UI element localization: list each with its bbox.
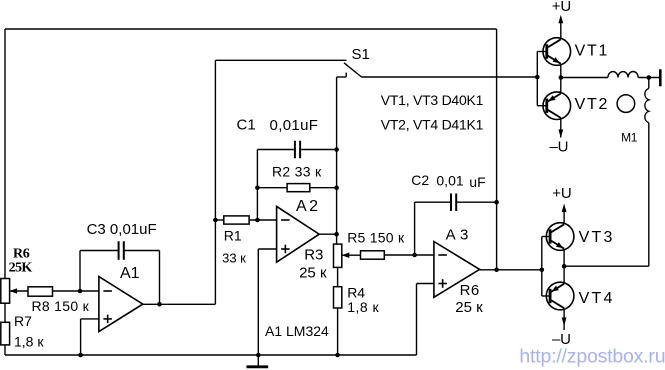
svg-text:–U: –U bbox=[550, 138, 569, 155]
svg-text:+U: +U bbox=[552, 0, 571, 15]
svg-text:VT1, VT3 D40K1: VT1, VT3 D40K1 bbox=[381, 92, 484, 108]
svg-text:R3: R3 bbox=[304, 247, 323, 264]
svg-text:S1: S1 bbox=[352, 46, 370, 63]
svg-text:uF: uF bbox=[469, 174, 485, 190]
svg-text:VT4: VT4 bbox=[579, 290, 615, 307]
svg-text:0,01uF: 0,01uF bbox=[270, 117, 319, 134]
svg-text:C1: C1 bbox=[237, 117, 256, 134]
svg-text:C3 0,01uF: C3 0,01uF bbox=[87, 221, 157, 238]
svg-text:VT3: VT3 bbox=[579, 229, 615, 246]
svg-text:R6: R6 bbox=[13, 247, 30, 262]
svg-text:VT1: VT1 bbox=[575, 42, 609, 59]
svg-text:0,01: 0,01 bbox=[436, 172, 463, 188]
svg-text:R7: R7 bbox=[14, 313, 32, 329]
svg-text:R4: R4 bbox=[347, 284, 365, 300]
svg-text:A 3: A 3 bbox=[446, 227, 469, 244]
svg-text:VT2, VT4 D41K1: VT2, VT4 D41K1 bbox=[381, 116, 484, 132]
svg-text:1,8 к: 1,8 к bbox=[347, 299, 379, 315]
svg-text:R2 33 к: R2 33 к bbox=[272, 164, 322, 180]
svg-text:VT2: VT2 bbox=[575, 96, 609, 113]
svg-text:A1: A1 bbox=[120, 265, 140, 282]
svg-text:M1: M1 bbox=[621, 130, 638, 144]
svg-text:http://zpostbox.ru: http://zpostbox.ru bbox=[519, 346, 665, 368]
svg-text:25K: 25K bbox=[9, 261, 33, 276]
svg-text:33 к: 33 к bbox=[222, 251, 246, 266]
svg-text:C2: C2 bbox=[411, 172, 429, 188]
svg-text:1,8 к: 1,8 к bbox=[14, 333, 44, 349]
svg-text:+U: +U bbox=[552, 185, 571, 202]
svg-text:A2: A2 bbox=[296, 198, 321, 215]
svg-text:25 к: 25 к bbox=[455, 299, 483, 316]
svg-text:R6: R6 bbox=[460, 282, 480, 299]
svg-text:R8 150 к: R8 150 к bbox=[32, 298, 90, 314]
svg-text:R5 150 к: R5 150 к bbox=[347, 229, 405, 245]
svg-text:R1: R1 bbox=[224, 228, 242, 244]
svg-text:A1 LM324: A1 LM324 bbox=[265, 323, 329, 339]
svg-text:25 к: 25 к bbox=[299, 265, 327, 282]
